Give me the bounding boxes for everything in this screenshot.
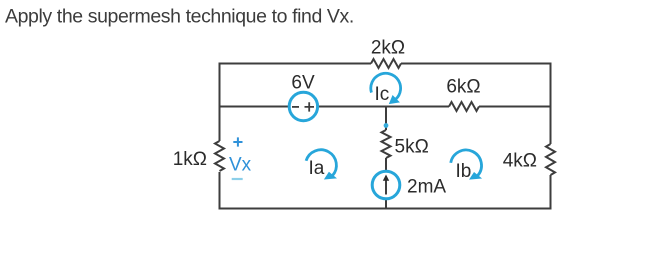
svg-text:Ic: Ic bbox=[375, 84, 390, 105]
svg-text:6kΩ: 6kΩ bbox=[446, 77, 480, 98]
wire middle vertical (5k resistor to 2mA source) bbox=[385, 158, 387, 172]
svg-text:2kΩ: 2kΩ bbox=[371, 38, 405, 59]
Vx label bbox=[229, 155, 252, 176]
wire right (bottom section below 4k resistor) bbox=[550, 175, 552, 210]
wire bottom bbox=[219, 208, 552, 210]
svg-text:Apply the supermesh technique: Apply the supermesh technique to find Vx… bbox=[5, 6, 354, 28]
wire right (top section above 4k resistor) bbox=[550, 63, 552, 145]
wire top (left of 2k resistor) bbox=[219, 63, 372, 65]
Vx minus sign bbox=[232, 178, 243, 180]
mesh current Ic (arc arrow) bbox=[371, 73, 401, 105]
mesh current Ib (arc arrow) bbox=[451, 150, 482, 182]
resistor 1kΩ (left) bbox=[173, 141, 224, 171]
svg-text:Ib: Ib bbox=[456, 161, 472, 182]
wire left (top section above 1k resistor) bbox=[219, 64, 221, 142]
wire middle vertical (below 2mA source) bbox=[385, 199, 387, 210]
svg-text:Vx: Vx bbox=[229, 155, 252, 176]
svg-text:4kΩ: 4kΩ bbox=[503, 151, 537, 172]
current source 2mA bbox=[372, 171, 446, 199]
resistor 6kΩ (middle) bbox=[446, 77, 480, 112]
voltage source 6V bbox=[289, 73, 317, 121]
wire middle vertical (above 5k resistor) bbox=[385, 107, 387, 131]
svg-text:1kΩ: 1kΩ bbox=[173, 149, 207, 170]
svg-text:5kΩ: 5kΩ bbox=[395, 137, 429, 158]
wire middle horizontal (6V source to 6k resistor) bbox=[318, 106, 449, 108]
resistor 4kΩ (right) bbox=[503, 144, 555, 175]
Vx plus sign bbox=[233, 137, 242, 146]
resistor 2kΩ (top) bbox=[371, 38, 405, 69]
resistor 5kΩ (middle vertical) bbox=[382, 130, 429, 158]
wire left (bottom section below 1k resistor) bbox=[219, 172, 221, 210]
svg-text:2mA: 2mA bbox=[407, 177, 446, 198]
title text bbox=[5, 6, 354, 28]
node marker on middle vertical wire bbox=[384, 123, 389, 128]
svg-text:Ia: Ia bbox=[309, 158, 325, 179]
wire middle horizontal (right of 6k resistor) bbox=[479, 106, 552, 108]
mesh current Ia (arc arrow) bbox=[306, 150, 337, 180]
wire middle horizontal (left of 6V source) bbox=[220, 106, 290, 108]
svg-text:6V: 6V bbox=[291, 73, 315, 94]
wire top (right of 2k resistor) bbox=[401, 63, 552, 65]
